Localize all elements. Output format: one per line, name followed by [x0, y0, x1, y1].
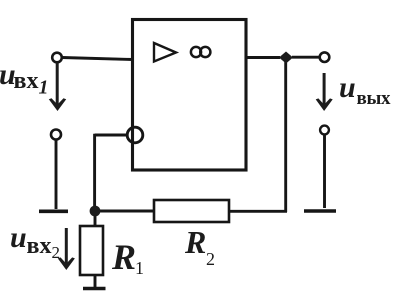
op-amp U1 triangle symbol — [154, 43, 176, 62]
wire: lower-left terminal to ground — [55, 140, 58, 209]
resistor R1 body — [80, 226, 103, 275]
ground bar lower-left — [39, 210, 68, 214]
op-amp U1 infinity gain symbol — [191, 47, 201, 57]
arrow u_vx1 — [56, 63, 59, 105]
label R2 — [184, 224, 215, 269]
wire: non-inverting input to U1 — [62, 58, 133, 60]
svg-text:2: 2 — [206, 249, 215, 269]
wire: node to output terminal — [292, 56, 320, 59]
wire: node A to R1 top — [94, 214, 97, 226]
output node junction (diamond) — [279, 52, 293, 64]
label u_vyx — [339, 71, 391, 109]
wire: lower-right terminal to ground — [323, 135, 326, 209]
wire: R2 right end — [229, 210, 287, 213]
wire: output node down to R2 — [284, 62, 287, 212]
arrow u_vyx — [323, 73, 326, 105]
label R1 — [111, 237, 144, 278]
wire: U1 output to node — [246, 56, 280, 59]
label u_vx1 — [0, 58, 49, 99]
svg-text:R: R — [111, 237, 136, 277]
terminal circle lower-left — [51, 130, 61, 140]
wire: R2 left end to node A — [99, 210, 154, 213]
terminal circle lower-right — [320, 126, 329, 135]
ground bar lower-right — [304, 209, 336, 213]
svg-text:u: u — [10, 221, 27, 254]
svg-text:1: 1 — [39, 77, 49, 99]
ground bar below R1 — [83, 287, 106, 290]
svg-text:вх: вх — [27, 233, 52, 259]
wire: R1 bottom to ground — [94, 275, 97, 288]
arrow u_vx2 — [65, 228, 68, 264]
svg-text:u: u — [339, 71, 356, 104]
svg-text:2: 2 — [52, 243, 61, 262]
label u_vx2 — [10, 221, 60, 262]
node A junction dot — [90, 206, 101, 217]
terminal circle input 1 — [52, 53, 62, 63]
wire: inverting input to left — [95, 134, 127, 137]
svg-text:вых: вых — [357, 88, 391, 109]
op-amp U1 body — [133, 20, 247, 171]
svg-text:R: R — [184, 224, 206, 260]
wire: down to node A — [93, 134, 96, 213]
inverting input circle on U1 — [127, 127, 143, 143]
svg-text:вх: вх — [14, 68, 39, 94]
resistor R2 body — [154, 200, 229, 222]
terminal circle output — [320, 52, 330, 62]
svg-text:1: 1 — [135, 258, 144, 278]
